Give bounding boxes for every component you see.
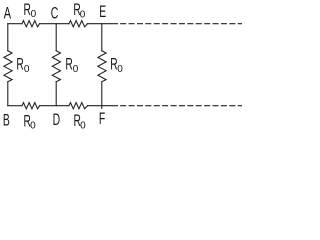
resistor R0 top C-E xyxy=(69,21,88,27)
wire bottom rail B-D-F solid xyxy=(8,105,22,107)
svg-text:C: C xyxy=(51,4,59,22)
svg-text:0: 0 xyxy=(80,10,86,21)
svg-text:0: 0 xyxy=(73,64,79,75)
wire top rail A-C-E solid xyxy=(8,23,22,25)
label R0 vertical resistor E-F xyxy=(110,55,123,75)
resistor R0 bottom B-D xyxy=(22,103,40,109)
svg-text:0: 0 xyxy=(117,64,123,75)
resistor R0 bottom D-F xyxy=(69,103,88,109)
wire vertical E-F xyxy=(101,24,103,51)
svg-text:0: 0 xyxy=(80,121,86,132)
svg-text:R: R xyxy=(16,55,23,73)
label R0 bottom resistor B-D xyxy=(24,112,37,132)
wire vertical A-B xyxy=(7,24,9,51)
wire top rail dashed continuation xyxy=(121,23,242,25)
resistor R0 vertical C-D xyxy=(52,51,60,82)
wire vertical C-D xyxy=(55,24,57,51)
resistor R0 vertical E-F xyxy=(98,51,106,82)
svg-text:0: 0 xyxy=(31,9,37,20)
label R0 vertical resistor A-B xyxy=(16,55,30,75)
resistor R0 vertical A-B xyxy=(4,51,12,82)
svg-text:A: A xyxy=(4,3,12,22)
svg-text:D: D xyxy=(53,111,61,129)
svg-text:E: E xyxy=(99,3,106,21)
label R0 vertical resistor C-D xyxy=(65,55,78,75)
label R0 bottom resistor D-F xyxy=(74,112,87,132)
wire bottom rail dashed continuation xyxy=(121,105,242,107)
svg-text:0: 0 xyxy=(24,64,30,75)
label R0 top resistor A-C xyxy=(24,1,37,20)
resistor R0 top A-C xyxy=(22,21,40,27)
svg-text:F: F xyxy=(99,110,105,128)
svg-text:B: B xyxy=(3,111,10,129)
svg-text:0: 0 xyxy=(30,121,36,132)
label R0 top resistor C-E xyxy=(73,1,85,21)
